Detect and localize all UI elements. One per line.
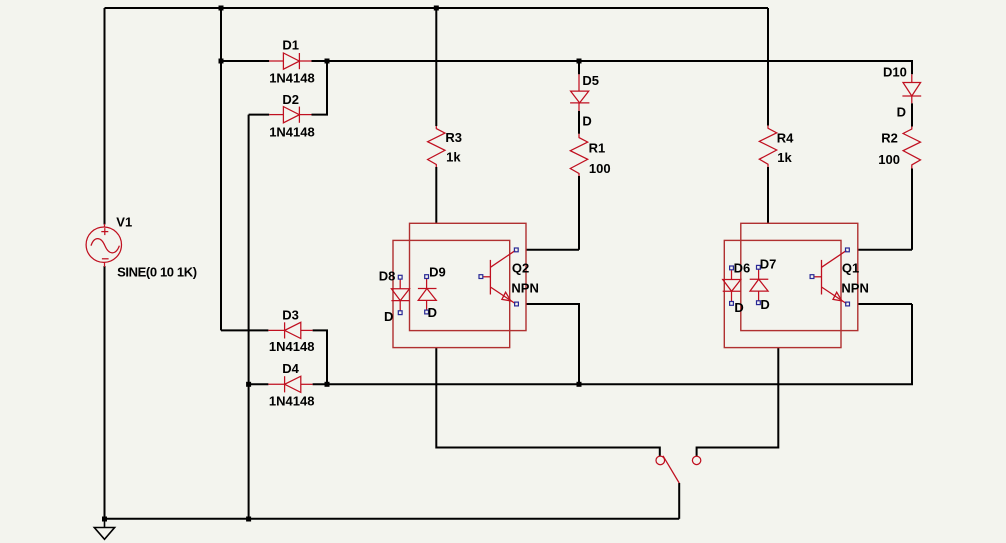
pin port of Q1 collector (846, 248, 850, 252)
wire (312, 61, 913, 74)
wire (578, 176, 580, 250)
pin port of Q2 base (479, 275, 483, 279)
wire (221, 329, 268, 331)
pin port of D6 bottom (730, 302, 734, 306)
pin port of Q2 emitter (515, 302, 519, 306)
svg-text:D1: D1 (282, 38, 299, 53)
svg-text:D4: D4 (282, 361, 299, 376)
svg-text:D: D (428, 305, 437, 320)
pin port of Q2 collector (514, 248, 518, 252)
svg-text:1N4148: 1N4148 (269, 339, 315, 354)
diode D9 (418, 279, 437, 310)
wire (526, 304, 579, 384)
diode D6 (723, 270, 741, 301)
svg-text:1N4148: 1N4148 (269, 125, 315, 140)
svg-text:D: D (760, 297, 769, 312)
wire (105, 518, 680, 520)
pin port of D8 bottom (398, 311, 402, 315)
wire (578, 61, 580, 74)
pin port of D9 bottom (425, 310, 429, 314)
wire (858, 249, 912, 251)
node junction (104,519) (102, 517, 107, 522)
node junction (221,61) (219, 59, 224, 64)
pin port of D6 top (730, 266, 734, 270)
wire (313, 304, 912, 384)
svg-text:R3: R3 (445, 130, 462, 145)
svg-text:D: D (897, 105, 906, 120)
wire (578, 111, 580, 134)
subcircuit box U1 outer rect (410, 223, 527, 330)
wire (249, 383, 269, 385)
wire (911, 169, 913, 250)
svg-text:R4: R4 (777, 131, 794, 146)
svg-text:1k: 1k (446, 149, 461, 164)
svg-text:NPN: NPN (511, 281, 538, 296)
resistor R4 (759, 126, 776, 168)
svg-text:R1: R1 (589, 141, 606, 156)
diode D10 (902, 74, 921, 103)
diode D8 (391, 279, 409, 310)
svg-text:D: D (384, 309, 393, 324)
svg-text:D: D (582, 113, 591, 128)
switch S1 right contact (692, 456, 700, 464)
svg-text:D10: D10 (883, 64, 907, 79)
subcircuit box U2 inner rect (724, 240, 841, 347)
wire (249, 114, 270, 116)
node junction (221,8) (219, 6, 224, 11)
svg-text:Q2: Q2 (512, 261, 529, 276)
diode D5 (570, 74, 589, 111)
svg-text:Q1: Q1 (842, 261, 859, 276)
switch S1 blade (663, 456, 679, 483)
node junction (327,61) (325, 59, 330, 64)
wire (104, 266, 106, 519)
resistor R1 (570, 134, 587, 176)
wire (678, 483, 680, 519)
pin port of Q1 base (810, 275, 814, 279)
svg-text:D7: D7 (760, 256, 777, 271)
svg-text:D6: D6 (734, 261, 751, 276)
svg-text:D9: D9 (429, 265, 446, 280)
diode D7 (750, 270, 769, 301)
wire (221, 60, 269, 62)
wire (104, 8, 106, 225)
svg-text:D2: D2 (282, 92, 299, 107)
subcircuit box U2 outer rect (741, 223, 858, 330)
svg-text:SINE(0 10 1K): SINE(0 10 1K) (117, 265, 197, 280)
wire (526, 249, 579, 251)
wire (767, 167, 769, 223)
node junction (579,61) (577, 59, 582, 64)
svg-text:100: 100 (878, 152, 900, 167)
pin port of Q1 emitter (846, 302, 850, 306)
wire (220, 8, 222, 330)
svg-text:D3: D3 (282, 307, 299, 322)
wire (248, 115, 250, 519)
node junction (248,519) (246, 517, 251, 522)
wire (697, 348, 779, 457)
svg-text:1k: 1k (777, 150, 792, 165)
resistor R3 (428, 126, 445, 167)
node junction (579,384) (577, 382, 582, 387)
diode D1 (269, 53, 311, 69)
diode D3 (268, 322, 312, 338)
pin port of D9 top (425, 275, 429, 279)
resistor R2 (903, 127, 920, 169)
svg-text:D5: D5 (582, 73, 599, 88)
svg-text:D: D (734, 300, 743, 315)
svg-text:1N4148: 1N4148 (269, 71, 315, 86)
svg-text:1N4148: 1N4148 (269, 393, 315, 408)
wire (313, 330, 327, 384)
pin port of D8 top (398, 275, 402, 279)
wire (105, 7, 769, 9)
wire (435, 8, 437, 126)
node junction (248,384) (246, 382, 251, 387)
switch S1 left contact (656, 456, 665, 465)
transistor Q2 (483, 251, 515, 304)
wire (858, 303, 912, 305)
ground (94, 519, 114, 539)
pin port of D7 top (757, 265, 761, 269)
svg-text:100: 100 (589, 161, 611, 176)
wire (435, 167, 437, 223)
svg-text:V1: V1 (116, 214, 132, 229)
wire (312, 61, 328, 115)
svg-text:NPN: NPN (841, 280, 868, 295)
wire (911, 103, 913, 126)
diode D4 (268, 376, 312, 392)
transistor Q1 (814, 251, 846, 304)
pin port of D7 bottom (757, 301, 761, 305)
svg-text:D8: D8 (379, 269, 396, 284)
subcircuit box U1 inner rect (393, 240, 510, 347)
svg-text:R2: R2 (881, 131, 898, 146)
diode D2 (269, 107, 311, 123)
wire (436, 348, 660, 457)
node junction (327,384) (325, 382, 330, 387)
node junction (436,8) (434, 6, 439, 11)
voltage source V1 (86, 224, 121, 267)
wire (767, 8, 769, 126)
